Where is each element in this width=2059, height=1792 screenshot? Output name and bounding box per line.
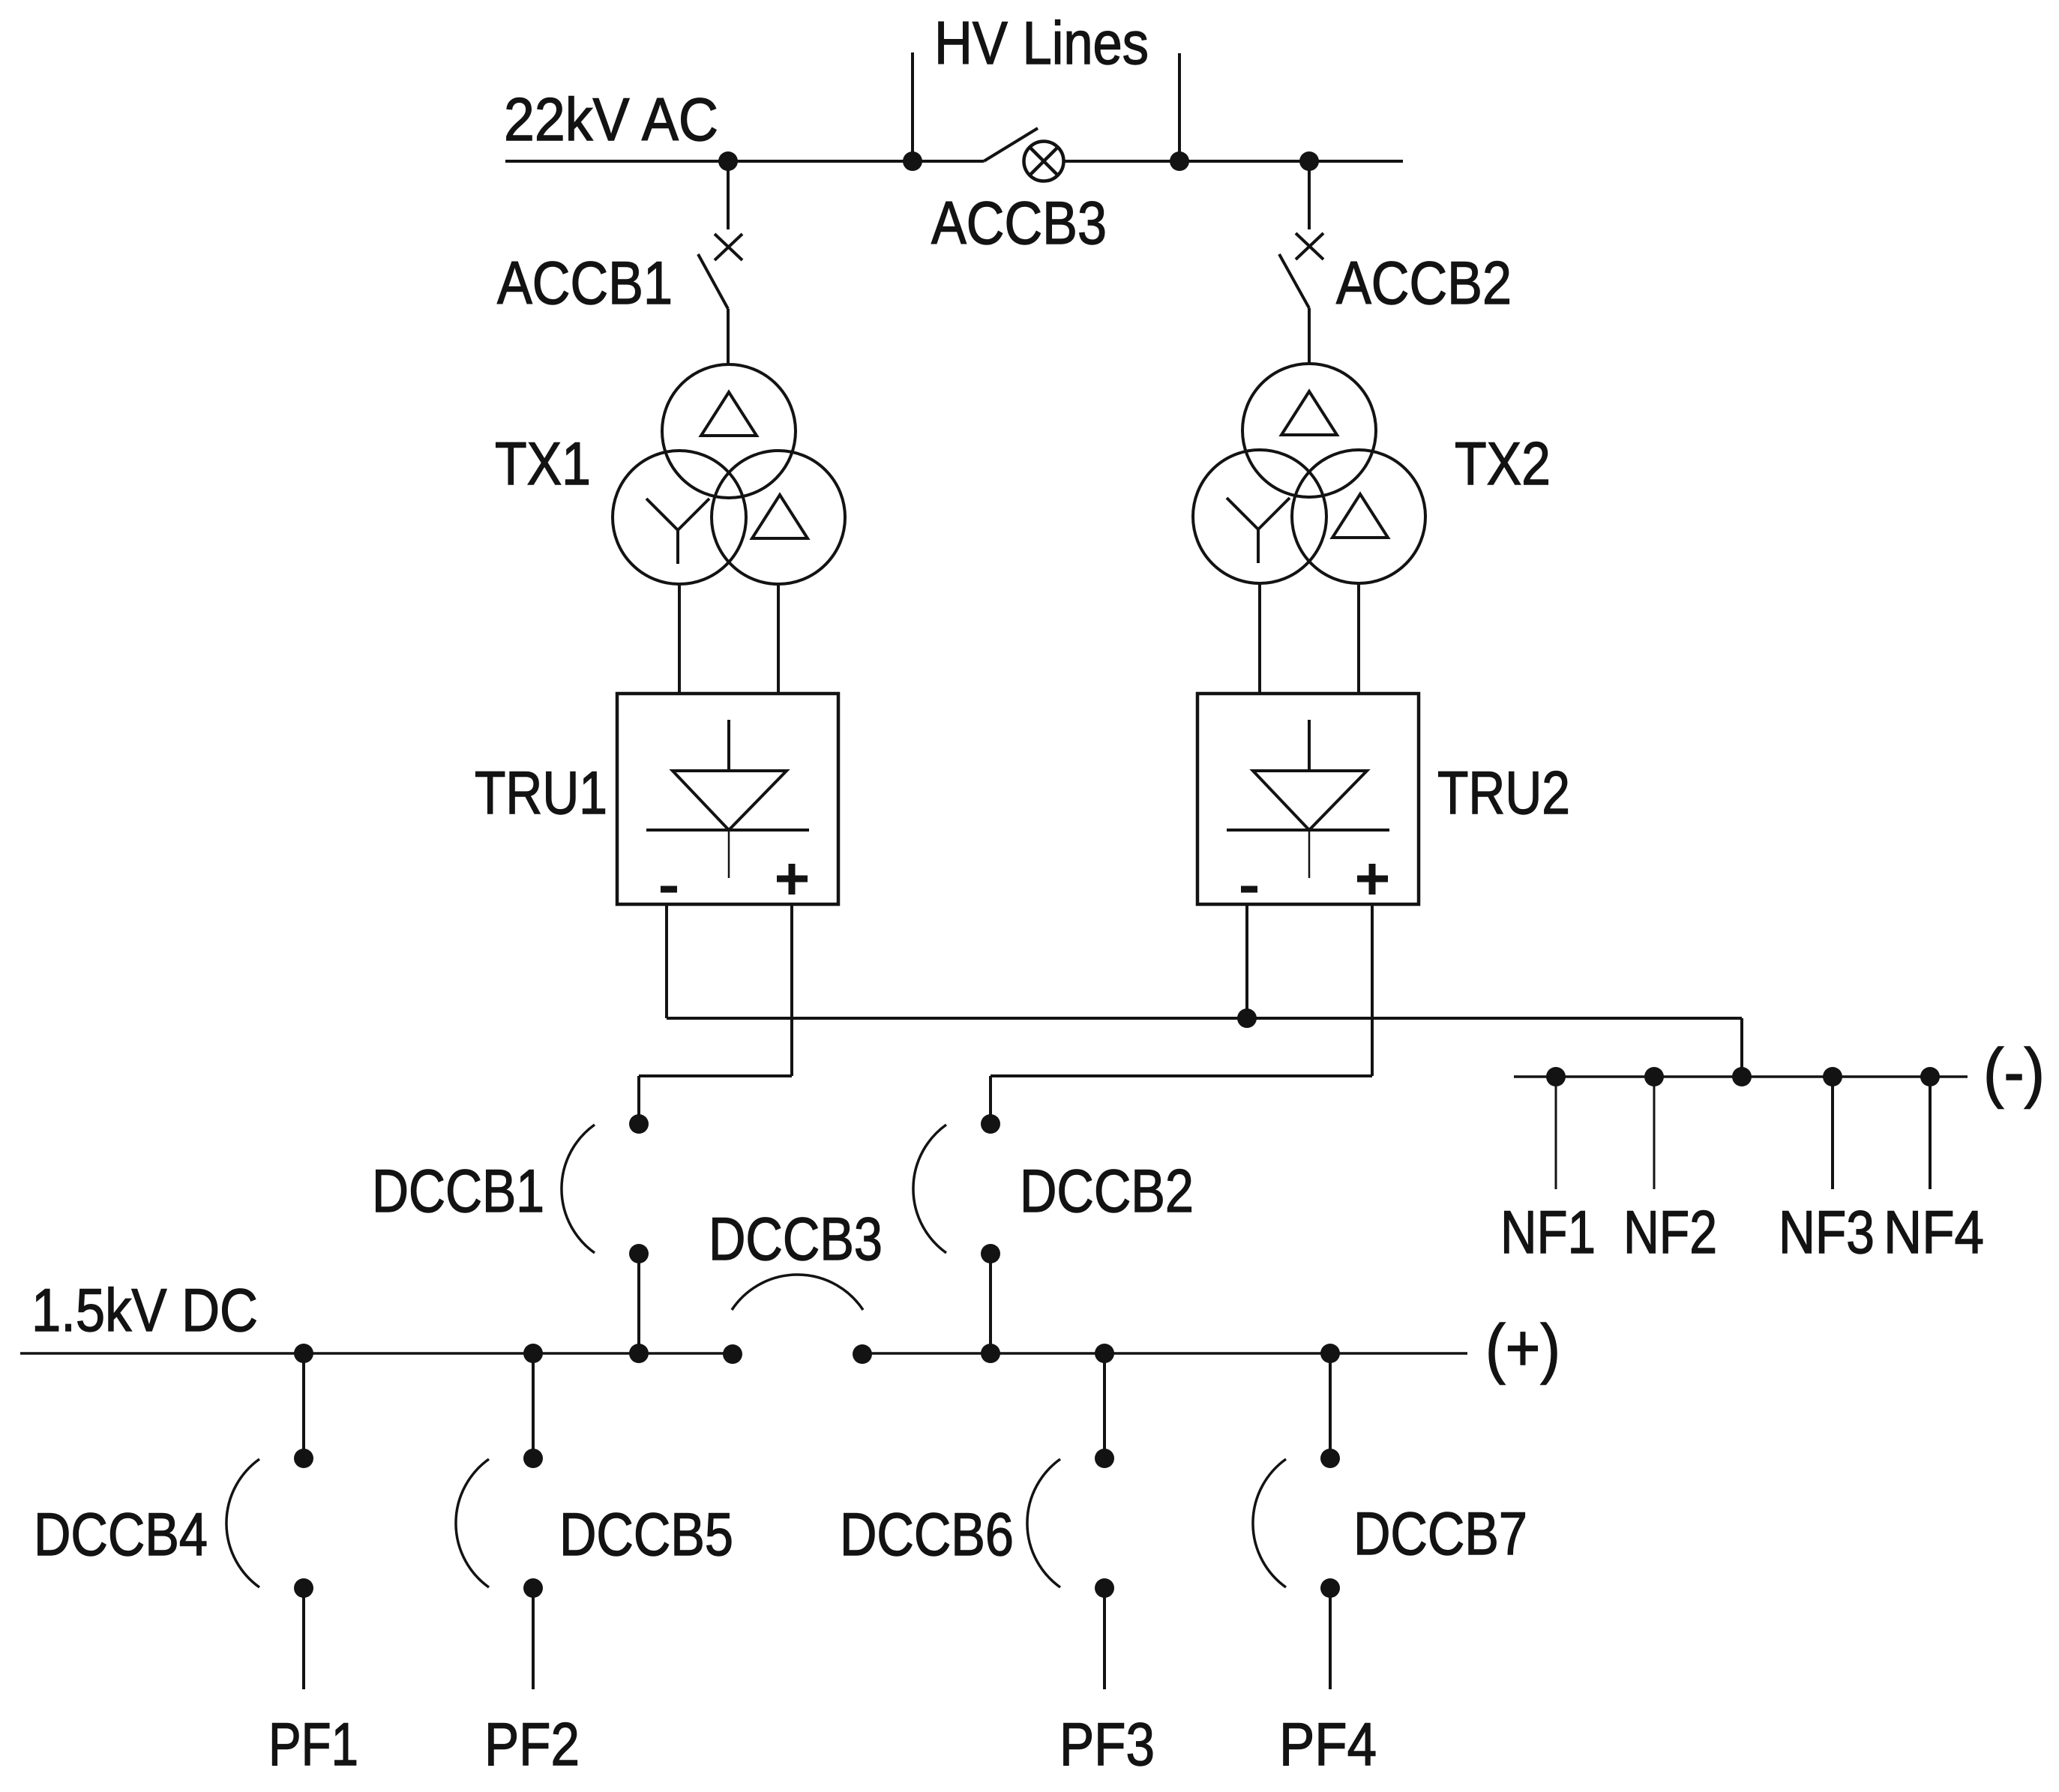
svg-text:DCCB5: DCCB5 — [559, 1501, 733, 1569]
svg-text:DCCB7: DCCB7 — [1353, 1500, 1527, 1568]
svg-text:ACCB1: ACCB1 — [497, 250, 673, 317]
svg-text:TX2: TX2 — [1455, 430, 1551, 498]
svg-text:PF4: PF4 — [1279, 1711, 1377, 1779]
svg-text:DCCB6: DCCB6 — [840, 1501, 1014, 1569]
svg-text:NF3: NF3 — [1779, 1199, 1875, 1266]
svg-text:PF2: PF2 — [484, 1711, 580, 1779]
svg-text:DCCB1: DCCB1 — [372, 1158, 544, 1225]
svg-text:1.5kV DC: 1.5kV DC — [31, 1277, 258, 1344]
svg-text:DCCB4: DCCB4 — [34, 1501, 208, 1569]
svg-text:PF1: PF1 — [268, 1711, 358, 1779]
svg-text:(-): (-) — [1983, 1035, 2045, 1109]
svg-text:(+): (+) — [1485, 1311, 1560, 1385]
svg-text:ACCB3: ACCB3 — [931, 190, 1107, 257]
svg-text:NF2: NF2 — [1623, 1199, 1717, 1266]
svg-text:TRU1: TRU1 — [475, 760, 607, 827]
svg-text:PF3: PF3 — [1059, 1711, 1155, 1779]
svg-text:DCCB2: DCCB2 — [1020, 1158, 1194, 1225]
svg-text:NF1: NF1 — [1500, 1199, 1596, 1266]
svg-text:TRU2: TRU2 — [1437, 760, 1570, 827]
svg-text:DCCB3: DCCB3 — [709, 1206, 883, 1273]
svg-text:ACCB2: ACCB2 — [1336, 250, 1512, 317]
svg-text:NF4: NF4 — [1884, 1199, 1984, 1266]
svg-text:HV Lines: HV Lines — [934, 10, 1149, 77]
svg-text:22kV AC: 22kV AC — [504, 86, 718, 154]
svg-text:TX1: TX1 — [495, 430, 591, 498]
